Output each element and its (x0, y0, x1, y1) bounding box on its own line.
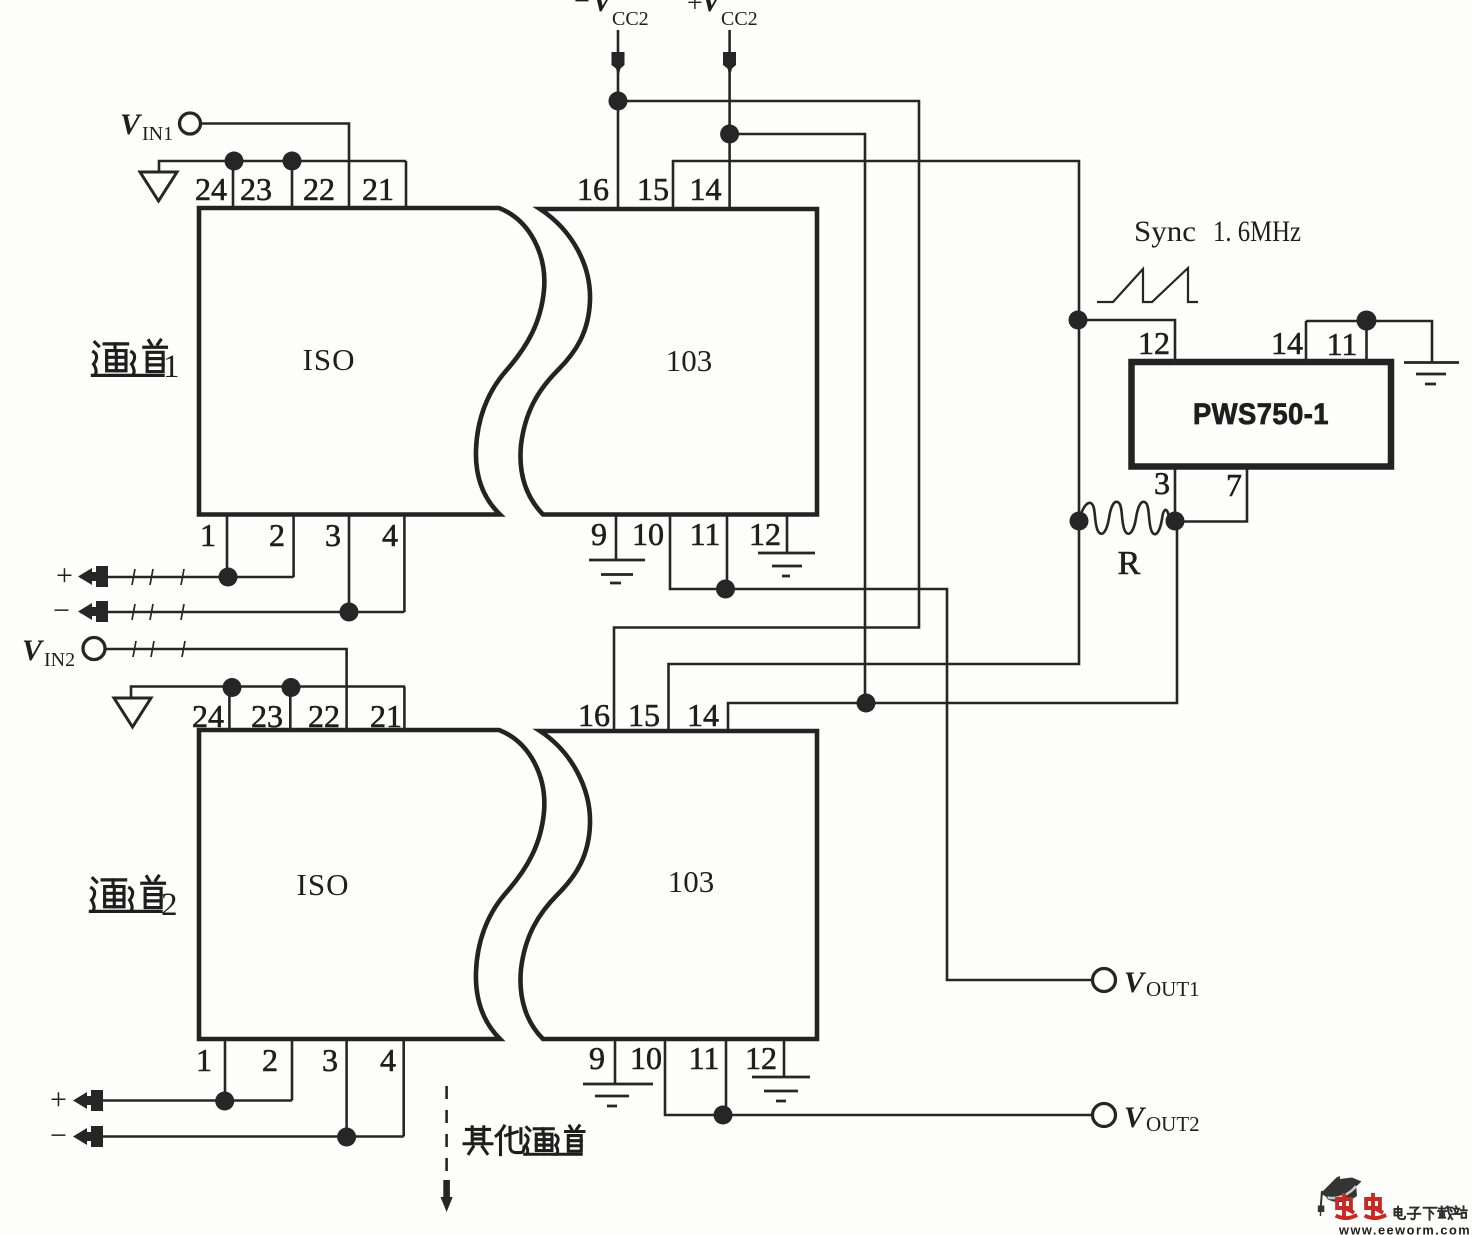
svg-text:IN1: IN1 (142, 123, 173, 145)
svg-text:CC2: CC2 (612, 8, 649, 30)
svg-text:ISO: ISO (297, 867, 350, 902)
svg-text:22: 22 (308, 698, 340, 734)
svg-text:1: 1 (200, 517, 216, 553)
svg-text:22: 22 (303, 171, 335, 207)
svg-text:IN2: IN2 (44, 649, 75, 671)
svg-text:14: 14 (690, 171, 722, 207)
svg-text:OUT1: OUT1 (1146, 977, 1200, 1001)
svg-text:9: 9 (589, 1040, 605, 1076)
svg-text:−: − (53, 594, 70, 627)
svg-text:11: 11 (1327, 326, 1358, 362)
svg-text:103: 103 (668, 864, 715, 899)
svg-text:2: 2 (269, 517, 285, 553)
svg-text:24: 24 (195, 171, 227, 207)
svg-text:V: V (120, 108, 143, 141)
svg-text:12: 12 (745, 1040, 777, 1076)
svg-text:PWS750-1: PWS750-1 (1193, 398, 1329, 431)
svg-text:+: + (687, 0, 703, 19)
svg-text:12: 12 (1138, 325, 1170, 361)
svg-text:1: 1 (163, 349, 180, 385)
svg-text:OUT2: OUT2 (1146, 1112, 1200, 1136)
svg-text:CC2: CC2 (721, 8, 758, 30)
svg-text:3: 3 (325, 517, 341, 553)
svg-text:15: 15 (637, 171, 669, 207)
svg-text:23: 23 (251, 698, 283, 734)
svg-text:16: 16 (578, 697, 610, 733)
svg-text:−: − (574, 0, 590, 17)
svg-text:3: 3 (322, 1042, 338, 1078)
svg-text:14: 14 (1271, 325, 1303, 361)
svg-text:12: 12 (749, 516, 781, 552)
svg-text:15: 15 (628, 697, 660, 733)
svg-text:9: 9 (591, 516, 607, 552)
svg-text:4: 4 (380, 1042, 396, 1078)
svg-text:10: 10 (632, 516, 664, 552)
svg-text:2: 2 (262, 1042, 278, 1078)
svg-text:Sync: Sync (1134, 215, 1196, 248)
svg-text:ISO: ISO (303, 342, 356, 377)
svg-text:V: V (1124, 966, 1147, 999)
svg-text:www.eeworm.com: www.eeworm.com (1338, 1223, 1471, 1235)
svg-text:1. 6MHz: 1. 6MHz (1213, 215, 1301, 248)
svg-text:16: 16 (577, 171, 609, 207)
svg-text:11: 11 (689, 1040, 720, 1076)
svg-text:4: 4 (382, 517, 398, 553)
svg-text:24: 24 (192, 698, 224, 734)
svg-text:21: 21 (370, 698, 402, 734)
svg-text:103: 103 (666, 343, 713, 378)
svg-text:2: 2 (161, 887, 178, 923)
svg-text:V: V (1124, 1101, 1147, 1134)
svg-text:+: + (50, 1083, 67, 1116)
svg-text:11: 11 (690, 516, 721, 552)
svg-text:14: 14 (687, 697, 719, 733)
svg-text:10: 10 (630, 1040, 662, 1076)
svg-text:1: 1 (196, 1042, 212, 1078)
svg-text:23: 23 (240, 171, 272, 207)
svg-text:−: − (50, 1119, 67, 1152)
svg-text:21: 21 (362, 171, 394, 207)
svg-text:V: V (22, 634, 45, 667)
svg-text:3: 3 (1154, 465, 1170, 501)
svg-text:R: R (1118, 545, 1141, 582)
svg-text:7: 7 (1226, 467, 1242, 503)
svg-text:+: + (56, 559, 73, 592)
